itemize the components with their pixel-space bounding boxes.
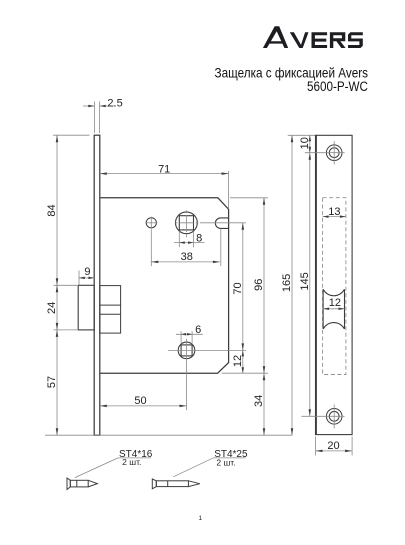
label ST4*16 [118,449,153,467]
dimension 6 [176,324,203,336]
screw ST4x25 [152,479,200,489]
title line 2 model number [307,79,368,94]
small hole [146,218,156,228]
svg-text:1: 1 [198,515,202,522]
svg-text:2 шт.: 2 шт. [216,458,235,468]
dimension 24 [46,285,58,330]
dimension 38 [151,251,220,263]
strip bottom hole crosshair [302,405,345,429]
strip outline [316,135,353,434]
extensions square 8 [179,231,193,247]
label ST4*25 [213,449,248,468]
ext faceplate top left [53,134,90,136]
dimension 12 side [232,350,244,373]
svg-text:6: 6 [195,324,201,336]
dimension 2.5 [83,97,123,109]
dimension 84 [46,135,58,285]
extensions square 6 [181,331,192,344]
svg-text:50: 50 [134,395,146,407]
svg-text:8: 8 [196,232,202,244]
ext bottom long [45,434,292,436]
dimension 8 [174,232,205,244]
svg-text:165: 165 [281,274,293,292]
logo AVERS [263,26,363,48]
spindle square [179,216,193,230]
svg-text:84: 84 [46,204,58,216]
dimension 10 [299,135,311,152]
dimension 96 [253,198,265,373]
extension below slot [220,229,222,266]
svg-text:145: 145 [299,272,311,290]
strip bottom screw hole [326,409,342,425]
svg-text:71: 71 [158,163,170,175]
svg-text:2.5: 2.5 [107,97,122,109]
spindle crosshair [175,210,199,237]
dashed opening [323,198,346,375]
centerline through slot [200,222,246,224]
svg-text:12: 12 [232,355,244,367]
ext 9 dim [78,271,80,285]
spindle hole circle [176,212,198,234]
lower square [181,345,192,356]
lock body outline [100,198,229,373]
ext body top right [230,197,268,199]
dimension 12 strip [323,297,344,310]
dimension 34 [253,373,265,435]
dimension 145 [299,153,311,417]
svg-text:34: 34 [253,395,265,407]
lower hole v centerline [186,339,188,410]
latch bolt front view [323,289,344,329]
ext strip top [288,134,315,136]
dimension 165 [281,135,293,435]
lower hole h centerline [168,349,246,351]
dimension 50 [100,395,187,407]
lower square hole circle [178,342,195,359]
latch mechanism box [100,286,121,334]
latch bolt protruding [78,285,94,330]
small hole crosshair [145,217,157,230]
dimension 70 [232,223,244,351]
page number [198,515,202,522]
svg-text:24: 24 [46,302,58,314]
strip top screw hole [326,145,342,161]
ext 2.5 dim [94,102,99,134]
svg-text:10: 10 [299,137,311,149]
svg-text:2 шт.: 2 шт. [122,457,141,467]
ext latch top [54,284,78,286]
dimension 57 [46,330,58,435]
ext 71 right [228,171,230,209]
faceplate side view [94,135,100,435]
ext latch bottom [54,329,78,331]
strip top hole crosshair [305,141,345,165]
extension below small hole [150,230,152,267]
svg-text:96: 96 [253,279,265,291]
dimension 20 [316,440,353,452]
svg-text:12: 12 [329,297,341,309]
ext strip bottom 20 [316,437,353,456]
leader screw 2 [173,458,213,477]
svg-text:38: 38 [181,251,193,263]
ext body bottom right [222,372,268,374]
dimension 71 [100,163,229,175]
svg-text:57: 57 [46,376,58,388]
svg-text:9: 9 [84,266,90,278]
svg-text:20: 20 [327,440,339,452]
slot at right edge [215,218,228,229]
dimension 9 [79,266,95,279]
svg-text:5600-P-WC: 5600-P-WC [307,79,368,94]
leader screw 1 [75,458,118,478]
title line 1 [215,65,369,81]
svg-text:13: 13 [328,206,340,218]
svg-text:70: 70 [232,282,244,294]
dimension 13 [323,206,346,218]
screw ST4x16 [67,478,97,490]
